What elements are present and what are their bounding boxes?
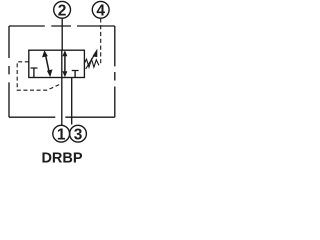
component boundary (dashed box) top edge bbox=[9, 25, 115, 27]
right box arrow shaft bbox=[64, 54, 66, 75]
port 2 circle bbox=[54, 1, 71, 18]
valve body outline bbox=[29, 50, 85, 77]
svg-text:1: 1 bbox=[57, 126, 66, 143]
svg-text:4: 4 bbox=[96, 2, 105, 19]
component boundary bottom edge bbox=[9, 116, 115, 118]
adjustment arrow head bbox=[92, 49, 97, 58]
port 4 pilot wire (dashed) bbox=[100, 18, 102, 66]
port 1 wire bbox=[61, 78, 63, 126]
port 3 wire bbox=[71, 78, 73, 125]
valve center divider bbox=[61, 50, 63, 77]
adjustment arrow shaft bbox=[86, 55, 95, 69]
left box arrow head up bbox=[42, 50, 48, 57]
right box arrow head down bbox=[62, 71, 67, 77]
port 4 circle bbox=[92, 1, 109, 18]
port 1 circle bbox=[53, 125, 70, 142]
pilot line loop (dashed) bbox=[17, 62, 61, 90]
left box arrow head down bbox=[47, 69, 53, 77]
right box arrow head up bbox=[62, 50, 67, 56]
spring bbox=[84, 59, 99, 67]
blocked port T left box bbox=[31, 68, 38, 78]
port 2 stem wire bbox=[61, 18, 63, 50]
svg-text:2: 2 bbox=[58, 2, 67, 19]
port 3 circle bbox=[70, 125, 87, 142]
svg-text:3: 3 bbox=[74, 126, 83, 143]
component boundary left edge bbox=[8, 26, 10, 117]
svg-text:DRBP: DRBP bbox=[41, 150, 82, 166]
component boundary right edge bbox=[114, 26, 116, 117]
left box arrow shaft bbox=[45, 54, 49, 74]
blocked port T right box bbox=[72, 71, 79, 78]
